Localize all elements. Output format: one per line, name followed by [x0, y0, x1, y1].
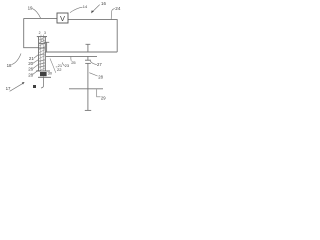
svg-text:17: 17	[6, 86, 11, 91]
svg-text:26: 26	[28, 67, 33, 72]
svg-text:2: 2	[39, 31, 41, 35]
svg-text:22: 22	[57, 67, 62, 72]
svg-text:20: 20	[28, 61, 33, 66]
svg-text:25: 25	[71, 60, 76, 65]
svg-text:28: 28	[28, 72, 33, 77]
svg-text:V: V	[60, 14, 65, 23]
svg-text:28: 28	[98, 74, 103, 79]
svg-text:16: 16	[101, 1, 106, 6]
svg-text:14: 14	[83, 4, 88, 9]
svg-text:18: 18	[7, 63, 12, 68]
svg-text:29: 29	[101, 96, 106, 101]
svg-text:24: 24	[115, 6, 121, 11]
svg-text:19: 19	[28, 5, 33, 10]
svg-text:23: 23	[65, 63, 70, 68]
svg-text:3: 3	[44, 31, 46, 35]
svg-text:27: 27	[97, 62, 102, 67]
svg-text:30: 30	[48, 72, 52, 76]
